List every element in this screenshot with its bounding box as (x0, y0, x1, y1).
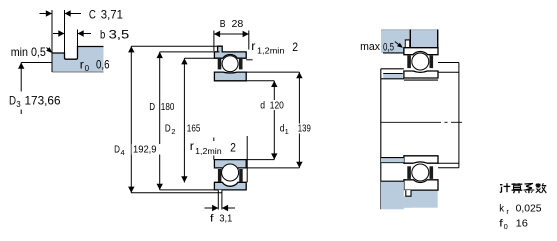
svg-text:2: 2 (171, 127, 175, 136)
svg-text:min 0,5: min 0,5 (11, 45, 46, 59)
svg-text:1,2min: 1,2min (195, 147, 222, 156)
svg-text:3: 3 (16, 100, 21, 109)
svg-text:f: f (499, 218, 503, 229)
svg-text:B: B (220, 19, 226, 30)
svg-text:D: D (165, 123, 171, 134)
svg-text:120: 120 (270, 100, 284, 111)
svg-text:139: 139 (298, 123, 311, 134)
svg-text:r: r (251, 41, 255, 53)
svg-text:0,5: 0,5 (383, 41, 394, 53)
svg-text:r: r (80, 60, 84, 72)
svg-text:180: 180 (161, 102, 175, 113)
svg-text:192,9: 192,9 (133, 144, 157, 155)
svg-text:0,6: 0,6 (96, 60, 110, 72)
svg-text:max: max (360, 41, 380, 53)
svg-text:D: D (9, 96, 16, 108)
svg-text:3,5: 3,5 (109, 27, 130, 41)
svg-text:0: 0 (504, 222, 508, 231)
svg-text:4: 4 (121, 148, 125, 157)
svg-text:3,71: 3,71 (101, 8, 123, 22)
svg-text:D: D (114, 144, 120, 155)
svg-text:2: 2 (230, 141, 236, 155)
svg-text:2: 2 (292, 40, 298, 54)
svg-text:0: 0 (85, 64, 90, 73)
svg-text:r: r (190, 141, 194, 153)
svg-text:1,2min: 1,2min (257, 46, 284, 55)
svg-text:C: C (89, 8, 96, 22)
svg-text:16: 16 (516, 218, 529, 229)
svg-text:b: b (100, 27, 106, 41)
svg-text:d: d (260, 100, 265, 111)
svg-text:28: 28 (232, 19, 244, 30)
svg-text:D: D (149, 102, 155, 113)
svg-text:173,66: 173,66 (25, 96, 61, 108)
svg-text:f: f (210, 214, 214, 225)
svg-text:0,025: 0,025 (516, 203, 542, 214)
svg-text:1: 1 (285, 127, 289, 136)
svg-text:3,1: 3,1 (219, 214, 232, 225)
svg-text:165: 165 (187, 123, 201, 134)
